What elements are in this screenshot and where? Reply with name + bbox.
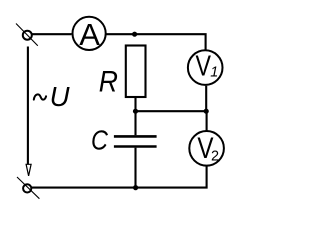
arrow of voltage U (open arrowhead pointing down) (26, 164, 31, 176)
wire source (left rail from X1 down) (27, 47, 29, 165)
svg-text:R: R (99, 65, 118, 98)
wire terminal X1 to ammeter (32, 33, 72, 35)
svg-text:V: V (196, 49, 212, 82)
capacitor C bottom plate (114, 145, 157, 148)
voltmeter V2 (189, 131, 224, 166)
wire R bottom to node M1 (134, 98, 136, 112)
wire node T1 to top-right corner (136, 34, 206, 50)
svg-text:C: C (91, 126, 108, 156)
wire V1 bottom to node M2 (205, 86, 207, 112)
node M1 (junction between R and C) (133, 109, 138, 114)
svg-text:A: A (79, 17, 100, 52)
node B1 (junction bottom of C branch) (133, 185, 138, 190)
wire node M1 to capacitor top plate (134, 111, 136, 135)
wire node B1 to terminal X2 (32, 187, 136, 189)
wire capacitor bottom plate to node B1 (134, 148, 136, 188)
terminal X1 (top-left input) (16, 24, 38, 46)
terminal X2 (bottom-left input) (17, 177, 39, 199)
resistor R body (126, 46, 146, 98)
node T1 (junction top of R) (132, 32, 137, 37)
svg-text:2: 2 (211, 148, 219, 164)
label ~U (34, 81, 70, 112)
wire ammeter to node T1 (106, 33, 136, 35)
voltmeter V1 (188, 49, 223, 85)
ammeter A (73, 17, 106, 52)
capacitor C top plate (114, 135, 157, 138)
wire V2 top to node M2 (206, 111, 208, 130)
svg-text:1: 1 (210, 64, 218, 80)
node M2 (junction right of middle rail) (204, 109, 209, 114)
svg-text:U: U (50, 81, 70, 112)
wire V2 bottom to bottom-right corner (136, 166, 207, 187)
wire node M1 to node M2 (middle rail) (136, 110, 207, 112)
